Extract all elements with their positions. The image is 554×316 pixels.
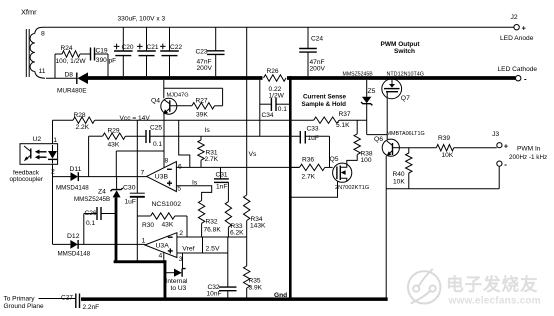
U3A pin 3 xyxy=(179,253,183,269)
svg-text:8: 8 xyxy=(165,158,169,165)
svg-text:optocoupler: optocoupler xyxy=(10,176,44,183)
svg-text:0.1: 0.1 xyxy=(86,220,95,227)
svg-text:J3: J3 xyxy=(492,131,499,138)
svg-text:2.7K: 2.7K xyxy=(205,156,219,163)
svg-text:电子发烧友: 电子发烧友 xyxy=(446,275,538,295)
svg-text:Q5: Q5 xyxy=(330,156,339,163)
svg-text:LED Anode: LED Anode xyxy=(500,35,534,42)
svg-text:Current Sense: Current Sense xyxy=(303,93,347,100)
capacitor C23 xyxy=(196,27,225,76)
svg-text:143K: 143K xyxy=(250,223,266,230)
wire snubber right xyxy=(95,54,109,78)
wire Q5 source to ground xyxy=(292,182,338,198)
svg-text:39K: 39K xyxy=(196,111,208,118)
svg-text:330uF, 100V x 3: 330uF, 100V x 3 xyxy=(118,15,166,22)
svg-text:C27: C27 xyxy=(61,294,73,301)
wire Vs column xyxy=(246,27,248,195)
svg-text:2.5V: 2.5V xyxy=(206,245,220,252)
svg-text:www.elecfans.com: www.elecfans.com xyxy=(448,296,541,307)
svg-text:+: + xyxy=(522,24,527,33)
capacitor C30 xyxy=(123,177,145,261)
svg-text:C25: C25 xyxy=(150,125,162,132)
label To Primary Ground Plane xyxy=(4,296,44,310)
wire Z4 node branch xyxy=(116,151,164,177)
wire R29 left drop xyxy=(88,136,90,176)
optocoupler U2 xyxy=(20,136,58,164)
label Vs xyxy=(249,151,258,158)
label Current Sense Sample and Hold xyxy=(302,93,347,108)
wire snubber left xyxy=(55,54,62,78)
svg-text:7: 7 xyxy=(141,170,145,177)
svg-text:R35: R35 xyxy=(249,277,261,284)
zener Z5 xyxy=(343,71,376,120)
svg-text:Z5: Z5 xyxy=(368,88,376,95)
svg-text:1nF: 1nF xyxy=(216,183,227,190)
capacitor C32 xyxy=(207,253,237,298)
svg-text:R32: R32 xyxy=(206,218,218,225)
zener Z4 xyxy=(74,177,123,204)
wire C30 node to wire B xyxy=(136,120,138,176)
svg-text:Q6: Q6 xyxy=(374,136,383,143)
resistor R37 xyxy=(314,111,351,129)
svg-text:C20: C20 xyxy=(122,44,134,51)
svg-text:MJD47G: MJD47G xyxy=(167,92,189,98)
wire R27 right xyxy=(215,105,223,107)
svg-text:200V: 200V xyxy=(197,65,213,72)
svg-text:200V: 200V xyxy=(310,66,326,73)
transformer Xfmr label xyxy=(21,8,37,17)
svg-text:D11: D11 xyxy=(70,166,82,173)
svg-text:R24: R24 xyxy=(61,45,73,52)
svg-text:MMBTA06LT1G: MMBTA06LT1G xyxy=(387,131,425,137)
transistor Q7 xyxy=(382,72,424,102)
resistor R35 xyxy=(244,266,263,298)
svg-text:76.8K: 76.8K xyxy=(204,227,222,234)
svg-text:R39: R39 xyxy=(438,135,450,142)
capacitor C34 xyxy=(260,98,289,119)
U3B pin 7 wire xyxy=(53,170,147,177)
svg-text:2: 2 xyxy=(179,230,183,237)
svg-text:Q7: Q7 xyxy=(401,95,410,102)
svg-text:1: 1 xyxy=(142,237,146,244)
transformer core xyxy=(26,29,29,77)
svg-text:0.1: 0.1 xyxy=(153,141,162,148)
transformer winding xyxy=(30,27,45,78)
Vref label box xyxy=(177,237,228,253)
wire R29 to C25 xyxy=(125,135,146,137)
svg-text:1uF: 1uF xyxy=(125,198,136,205)
U3A pin 4 xyxy=(159,252,164,261)
label Is at U3B xyxy=(192,179,198,186)
resistor R29 xyxy=(103,128,126,149)
svg-text:NTD12N10T4G: NTD12N10T4G xyxy=(387,72,424,78)
diode D12 xyxy=(58,233,91,257)
wire U2 pin1 to Vcc rail xyxy=(52,120,54,144)
svg-text:To Primary: To Primary xyxy=(4,296,36,303)
U3B pin 8 xyxy=(164,120,169,167)
wire thick LED cathode rail left xyxy=(86,76,263,80)
svg-text:2.2nF: 2.2nF xyxy=(83,304,100,311)
label Is node xyxy=(205,127,211,134)
svg-text:+: + xyxy=(504,142,509,151)
wire thick ground vertical xyxy=(289,76,292,299)
svg-text:200Hz -1 kHz: 200Hz -1 kHz xyxy=(509,154,547,161)
wire Z4 thick to ground bar xyxy=(115,197,118,263)
diode D8 xyxy=(57,71,88,94)
transformer pin 11 xyxy=(39,68,46,75)
svg-text:10K: 10K xyxy=(442,152,454,159)
svg-text:MMSD4148: MMSD4148 xyxy=(58,251,91,258)
svg-text:C33: C33 xyxy=(307,125,319,132)
svg-text:10K: 10K xyxy=(393,178,405,185)
label PWM In xyxy=(509,146,547,162)
capacitor C24 xyxy=(299,27,325,76)
wire Q7 source down xyxy=(386,99,388,140)
svg-text:Xfmr: Xfmr xyxy=(21,8,37,17)
svg-text:2.7K: 2.7K xyxy=(302,173,316,180)
svg-text:C23: C23 xyxy=(196,48,208,55)
wire Q6 emitter to ground bus xyxy=(385,156,387,298)
U3A pin 2 wire xyxy=(177,230,247,237)
capacitor C19 xyxy=(91,48,117,65)
svg-text:PWM In: PWM In xyxy=(517,146,541,153)
label PWM Output Switch xyxy=(381,41,421,55)
svg-text:43K: 43K xyxy=(162,222,174,229)
svg-text:U3B: U3B xyxy=(155,173,169,180)
wire Vs column lower xyxy=(246,237,248,266)
resistor R27 xyxy=(192,98,215,119)
svg-text:6.2K: 6.2K xyxy=(230,230,244,237)
terminal LED cathode xyxy=(516,74,528,83)
label LED Cathode xyxy=(498,66,538,73)
svg-text:5.1K: 5.1K xyxy=(336,122,350,129)
label Gnd xyxy=(274,292,287,299)
svg-text:2.2K: 2.2K xyxy=(76,124,90,131)
diode internal to U3 xyxy=(166,269,189,293)
svg-text:0.1: 0.1 xyxy=(278,106,287,113)
wire transformer to D8 xyxy=(46,77,77,79)
wire Vcc drop to pin6 net xyxy=(179,120,190,167)
svg-text:10nF: 10nF xyxy=(207,291,222,298)
wire thick bar drop to ground bus xyxy=(164,260,167,298)
svg-text:Z4: Z4 xyxy=(98,189,106,196)
svg-text:Is: Is xyxy=(192,179,198,186)
svg-text:MMSZ5245B: MMSZ5245B xyxy=(343,71,374,77)
watermark logo xyxy=(408,269,440,304)
wire U2 pin2 down xyxy=(52,164,54,244)
svg-text:C24: C24 xyxy=(311,35,323,42)
svg-text:R36: R36 xyxy=(302,156,314,163)
connector J3 xyxy=(492,131,509,169)
diode D11 xyxy=(56,166,89,191)
svg-text:8: 8 xyxy=(41,30,45,37)
wire U3A pin 1 xyxy=(53,237,146,244)
resistor R32 xyxy=(198,201,221,238)
svg-text:43K: 43K xyxy=(108,142,120,149)
svg-text:-: - xyxy=(524,74,527,83)
label 330uF 100V x 3 xyxy=(118,15,166,22)
wire Q4 collector loop xyxy=(164,80,223,106)
transistor Q6 xyxy=(374,131,425,156)
optocoupler pin 2 xyxy=(51,168,55,175)
resistor R36 xyxy=(292,156,333,180)
resistor R28 xyxy=(73,112,95,131)
svg-text:-: - xyxy=(504,160,507,169)
resistor R38 xyxy=(354,120,373,164)
svg-text:3.9K: 3.9K xyxy=(249,285,263,292)
label Vcc = 14V xyxy=(120,115,151,122)
capacitor C21 xyxy=(137,27,159,76)
op-amp U3A xyxy=(145,233,177,258)
wire R39 to J3 xyxy=(454,147,497,149)
capacitor C33 xyxy=(300,125,319,143)
svg-text:U2: U2 xyxy=(33,136,42,143)
wire bottom ground bus xyxy=(81,297,388,301)
svg-text:2N7002KT1G: 2N7002KT1G xyxy=(335,185,369,191)
svg-text:Is: Is xyxy=(205,127,211,134)
svg-text:C34: C34 xyxy=(262,112,274,119)
watermark text xyxy=(446,275,541,307)
wire C33 to Q5 gate node xyxy=(305,136,329,167)
svg-text:R30: R30 xyxy=(142,222,154,229)
wire PWM return xyxy=(386,166,499,189)
resistor R40 xyxy=(393,148,413,189)
optocoupler pin 1 xyxy=(53,137,57,144)
svg-text:Sample & Hold: Sample & Hold xyxy=(302,101,347,108)
resistor R30 xyxy=(137,213,187,237)
svg-text:Switch: Switch xyxy=(394,48,415,55)
svg-text:R27: R27 xyxy=(196,98,208,105)
svg-text:MMSZ5245B: MMSZ5245B xyxy=(74,196,110,203)
capacitor C31 xyxy=(214,167,229,190)
svg-text:U3A: U3A xyxy=(156,242,170,249)
svg-text:Ground Plane: Ground Plane xyxy=(4,303,44,310)
wire thick LED cathode rail right xyxy=(287,76,515,80)
transformer pin 8 xyxy=(41,30,45,37)
wire Q5 drain elbow xyxy=(347,155,357,164)
wire R26 sense tap xyxy=(259,80,261,136)
capacitor C25 xyxy=(146,125,162,149)
resistor R39 xyxy=(436,135,453,159)
U3B pin 5 wire xyxy=(176,186,211,201)
svg-text:Vcc = 14V: Vcc = 14V xyxy=(120,115,151,122)
svg-text:D12: D12 xyxy=(67,233,80,240)
svg-text:MUR480E: MUR480E xyxy=(57,87,86,94)
svg-text:11: 11 xyxy=(39,68,46,75)
label NCS1002 xyxy=(152,201,182,208)
svg-text:1: 1 xyxy=(53,137,57,144)
svg-text:C21: C21 xyxy=(147,44,159,51)
svg-text:390: 390 xyxy=(96,57,107,64)
wire Q6 base to R39 xyxy=(399,147,436,149)
wire thick ground bar xyxy=(114,260,167,263)
capacitor C27 xyxy=(39,294,100,311)
resistor R33 xyxy=(225,183,244,237)
wire R37 to Z5 node xyxy=(339,119,367,121)
connector J2 xyxy=(511,14,527,33)
svg-text:100, 1/2W: 100, 1/2W xyxy=(56,58,87,65)
svg-text:R28: R28 xyxy=(74,112,86,119)
svg-text:PWM Output: PWM Output xyxy=(381,41,421,48)
svg-text:5: 5 xyxy=(177,186,181,193)
wire R24 to C19 xyxy=(80,53,91,55)
svg-text:100: 100 xyxy=(361,157,372,164)
wire Vcc rail xyxy=(53,119,74,121)
svg-text:C22: C22 xyxy=(170,44,182,51)
label feedback optocoupler xyxy=(10,169,44,183)
svg-text:pF: pF xyxy=(109,57,117,64)
transistor Q5 xyxy=(330,156,370,191)
capacitor C26 xyxy=(84,207,115,244)
svg-text:R26: R26 xyxy=(267,68,279,75)
resistor R24 xyxy=(56,45,87,65)
svg-text:R29: R29 xyxy=(108,128,120,135)
resistor R26 xyxy=(264,68,287,99)
svg-text:NCS1002: NCS1002 xyxy=(152,201,182,208)
resistor R31 xyxy=(198,136,219,167)
U3B pin 6 wire xyxy=(176,163,299,170)
svg-text:Vref: Vref xyxy=(182,245,194,252)
wire Vcc rail middle xyxy=(95,119,314,121)
svg-text:Vs: Vs xyxy=(249,151,258,158)
svg-text:4: 4 xyxy=(159,253,163,260)
resistor R34 xyxy=(244,195,267,237)
svg-text:Internal: Internal xyxy=(166,278,189,285)
op-amp U3B xyxy=(147,162,177,192)
svg-text:Q4: Q4 xyxy=(151,97,160,104)
svg-text:C26: C26 xyxy=(85,210,97,217)
svg-text:MMSD4148: MMSD4148 xyxy=(56,184,89,191)
svg-text:J2: J2 xyxy=(511,14,518,21)
wire C25 to gnd bus edge xyxy=(150,135,300,137)
wire Is rail left xyxy=(89,135,103,137)
wire top output bus to J2 xyxy=(43,26,514,28)
wire gate node to Q7 xyxy=(367,120,388,134)
capacitor C22 xyxy=(160,27,182,76)
svg-text:C31: C31 xyxy=(216,171,228,178)
wire Q4 emitter to Vcc xyxy=(163,114,165,121)
svg-text:R40: R40 xyxy=(393,171,405,178)
label LED Anode xyxy=(500,35,534,42)
svg-text:C30: C30 xyxy=(123,184,136,191)
capacitor C20 xyxy=(114,27,134,76)
svg-text:LED Cathode: LED Cathode xyxy=(498,66,538,73)
svg-text:R37: R37 xyxy=(339,111,351,118)
transistor Q4 xyxy=(151,92,192,114)
svg-text:D8: D8 xyxy=(65,71,74,78)
svg-text:to U3: to U3 xyxy=(171,285,187,292)
